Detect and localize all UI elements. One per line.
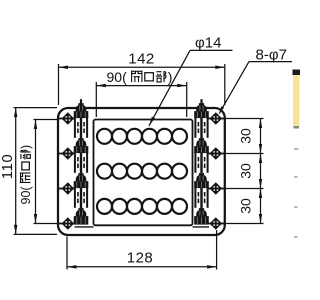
svg-text:): )	[168, 69, 173, 85]
svg-text:90(: 90(	[19, 186, 33, 205]
30-chain extension lines	[222, 119, 264, 224]
clamp bolt head R4	[194, 208, 209, 225]
cable hole phi14 row3 col3	[127, 199, 142, 214]
mounting hole left 3 (phi7)	[62, 182, 75, 195]
cable hole phi14 row1 col2	[112, 129, 127, 144]
clamp bolt head R2	[194, 138, 209, 153]
clamp bolt head R3	[194, 173, 209, 188]
cable hole phi14 row2 col6	[172, 164, 187, 179]
clamp bolt body R3	[194, 187, 208, 209]
cable hole phi14 row2 col4	[142, 164, 157, 179]
clamp bolt body L2	[74, 152, 88, 174]
dimension 90 opening extension lines	[96, 82, 186, 117]
dimension 110 extension lines	[14, 108, 58, 235]
yellow highlight remnant (page crop)	[293, 70, 301, 129]
mounting hole right 4 centerline	[209, 223, 225, 225]
clamp bolt head R1	[194, 99, 209, 118]
dimension 128 line	[67, 265, 217, 269]
cable hole phi14 row3 col1	[97, 199, 112, 214]
mounting hole left 1 (phi7)	[62, 112, 75, 125]
mounting hole left 2 centerline	[58, 153, 76, 155]
svg-text:30: 30	[238, 128, 254, 144]
svg-text:30: 30	[238, 198, 254, 214]
clamp bolt head L4	[74, 208, 89, 225]
cable hole phi14 row2 col1	[97, 164, 112, 179]
svg-text:142: 142	[128, 51, 155, 68]
clamp bolt head L2	[74, 138, 89, 153]
cable hole phi14 row1 col3	[127, 129, 142, 144]
mounting hole right 2 (phi7)	[210, 147, 223, 160]
mounting hole right 3 (phi7)	[210, 182, 223, 195]
svg-text:): )	[19, 145, 33, 149]
dimension 90 opening line	[96, 84, 186, 88]
mounting hole left 4 (phi7)	[62, 217, 75, 230]
svg-text:128: 128	[127, 250, 154, 267]
cable hole phi14 row1 col6	[172, 129, 187, 144]
dimension 90 opening (vertical) label	[19, 145, 33, 205]
gray dash remnants	[294, 148, 299, 238]
svg-text:90(: 90(	[107, 69, 128, 85]
svg-text:30: 30	[238, 163, 254, 179]
opening rectangle (90 kaikoubu)	[94, 120, 193, 226]
dimension 90 opening (vertical) line	[34, 120, 37, 224]
cable hole phi14 row3 col6	[172, 199, 187, 214]
mounting hole left 2 (phi7)	[62, 147, 75, 160]
phi14 leader	[149, 50, 233, 125]
8-phi7 leader	[219, 62, 292, 114]
mounting hole right 1 (phi7)	[210, 112, 223, 125]
dimension 142 extension lines	[59, 64, 225, 105]
cable hole phi14 row1 col5	[157, 129, 172, 144]
cable hole phi14 row2 col2	[112, 164, 127, 179]
dimension 142 line	[59, 66, 225, 70]
mounting hole left 1 centerline	[58, 118, 76, 120]
dimension 90 opening (vertical) extension lines	[34, 120, 58, 224]
plate outline	[58, 108, 225, 235]
30-chain dimension line	[259, 119, 262, 224]
mounting hole right 2 centerline	[209, 153, 225, 155]
mounting hole right 3 centerline	[209, 188, 225, 190]
mounting hole right 1 centerline	[209, 118, 225, 120]
seam stub left	[75, 226, 94, 228]
clamp bolt head L1	[74, 99, 89, 118]
cable hole phi14 row2 col5	[157, 164, 172, 179]
cable hole phi14 row3 col2	[112, 199, 127, 214]
mounting hole left 3 centerline	[58, 188, 76, 190]
cable hole phi14 row3 col4	[142, 199, 157, 214]
dimension 128 extension lines	[67, 230, 217, 270]
svg-text:8-φ7: 8-φ7	[256, 46, 287, 63]
clamp bolt body R2	[194, 152, 208, 174]
mounting hole right 4 (phi7)	[210, 217, 223, 230]
clamp bolt body L1	[74, 117, 88, 139]
cable hole phi14 row2 col3	[127, 164, 142, 179]
svg-text:110: 110	[0, 154, 16, 179]
cable hole phi14 row1 col1	[97, 129, 112, 144]
cable hole phi14 row1 col4	[142, 129, 157, 144]
seam stub right	[193, 226, 210, 228]
dimension 110 line	[14, 108, 18, 235]
dimension 90 opening label	[107, 69, 173, 85]
clamp bolt head L3	[74, 173, 89, 188]
cable hole phi14 row3 col5	[157, 199, 172, 214]
clamp bolt body R1	[194, 117, 208, 139]
clamp bolt body L3	[74, 187, 88, 209]
svg-text:φ14: φ14	[195, 35, 221, 52]
mounting hole left 4 centerline	[58, 223, 76, 225]
